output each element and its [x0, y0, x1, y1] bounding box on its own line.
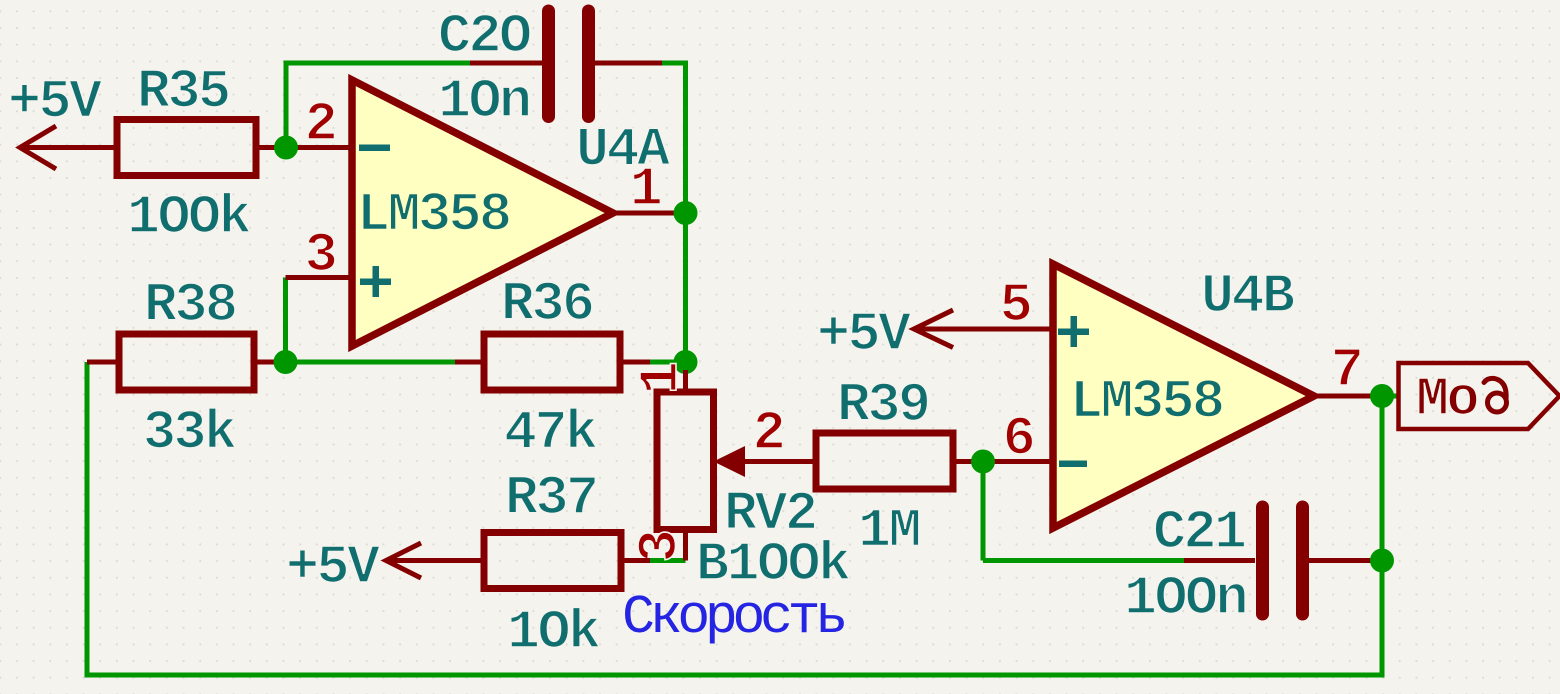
- svg-text:1Ok: 1Ok: [507, 601, 600, 664]
- wire R38 left pin: [87, 360, 119, 365]
- svg-text:1OOk: 1OOk: [127, 186, 251, 249]
- resistor R36: [484, 334, 620, 390]
- power +5V arrow (U4B pin5): [914, 310, 1053, 348]
- op-amp U4A: [352, 80, 613, 346]
- resistor R38: [119, 334, 254, 390]
- capacitor C20 plates: [549, 11, 589, 117]
- net label Мод flag: [1399, 363, 1560, 429]
- wire top horizontal right (C20 to output column): [662, 61, 686, 66]
- svg-text:47k: 47k: [504, 402, 597, 465]
- svg-text:Скорость: Скорость: [622, 586, 844, 649]
- wire output column vertical (C20 to U4A out to R36 node to RV2): [683, 61, 688, 365]
- wire C21 left horizontal: [983, 558, 1184, 563]
- wire R37 right pin: [621, 558, 650, 563]
- op-amp U4B: [1053, 264, 1314, 528]
- capacitor C20 lead left: [470, 61, 542, 66]
- svg-text:3: 3: [305, 224, 336, 287]
- RV2 pin3 lead: [683, 530, 688, 561]
- wire U4A output pin1: [613, 211, 686, 216]
- capacitor C21 lead left: [1184, 558, 1255, 563]
- capacitor C20 lead right: [595, 61, 662, 66]
- svg-text:+5V: +5V: [817, 303, 911, 366]
- potentiometer RV2 body: [683, 370, 688, 392]
- junction R38 node: [274, 350, 298, 374]
- U4A plus mark: [360, 266, 391, 297]
- wire R38 right pin: [254, 360, 286, 365]
- wire U4B output pin7: [1314, 394, 1382, 399]
- wire right vertical (output to bottom): [1380, 396, 1385, 678]
- wire bottom horizontal feedback: [85, 673, 1383, 678]
- svg-text:U4B: U4B: [1201, 265, 1294, 328]
- wire pin3 drop: [283, 278, 288, 363]
- svg-text:1On: 1On: [438, 70, 530, 133]
- junction U4A output node: [674, 201, 698, 225]
- U4B plus mark: [1058, 316, 1089, 347]
- power +5V arrow (R35 left): [20, 126, 117, 169]
- svg-text:R39: R39: [837, 374, 929, 437]
- wire pin R35 right to U4A pin2: [256, 145, 352, 150]
- svg-text:7: 7: [1331, 339, 1362, 402]
- svg-text:6: 6: [1003, 408, 1034, 471]
- capacitor C21 lead right: [1309, 558, 1382, 563]
- resistor R35: [117, 120, 256, 176]
- resistor R39: [816, 433, 953, 489]
- wire R37 to RV2 pin3: [650, 558, 686, 563]
- svg-text:+5V: +5V: [8, 71, 102, 134]
- svg-text:R36: R36: [501, 273, 593, 336]
- junction RV2 top node: [674, 350, 698, 374]
- wire left vertical feedback: [85, 362, 90, 675]
- svg-text:C21: C21: [1153, 501, 1245, 564]
- wire wiper to R39: [745, 459, 816, 464]
- U4B minus mark: [1059, 461, 1087, 468]
- wire R36 to RV2 top node: [650, 360, 686, 365]
- svg-text:1: 1: [630, 363, 693, 394]
- net label glyph d: [1484, 378, 1507, 412]
- svg-text:LM358: LM358: [357, 184, 510, 247]
- capacitor C21 plates: [1263, 507, 1303, 614]
- wire R36 left pin: [455, 360, 484, 365]
- svg-text:1M: 1M: [858, 500, 920, 563]
- svg-text:R35: R35: [137, 61, 229, 124]
- junction U4B pin6 node: [971, 450, 995, 474]
- resistor R37: [484, 533, 621, 589]
- wire R39 right pin to U4B pin6: [953, 459, 1053, 464]
- svg-text:2: 2: [753, 402, 784, 465]
- svg-text:Мо: Мо: [1416, 368, 1478, 431]
- svg-text:5: 5: [1000, 274, 1031, 337]
- power +5V arrow (R37 left): [386, 543, 484, 578]
- junction U4B output node: [1370, 384, 1394, 408]
- wire R36 right pin: [620, 360, 650, 365]
- wire top horizontal left (pin2 node to C20): [286, 61, 470, 66]
- svg-text:C2O: C2O: [438, 5, 531, 68]
- wire vertical pin2 node riser: [284, 61, 289, 148]
- svg-text:2: 2: [305, 93, 336, 156]
- wire pin3 lead: [286, 275, 353, 280]
- svg-text:R37: R37: [505, 467, 597, 530]
- wire R38 node to R36: [286, 360, 456, 365]
- svg-text:33k: 33k: [143, 402, 236, 465]
- wire stub to Mod label: [1382, 394, 1397, 399]
- wire R39 node drop to C21: [981, 462, 986, 561]
- RV2 wiper arrow: [714, 446, 746, 477]
- svg-text:1OOn: 1OOn: [1124, 567, 1246, 630]
- svg-text:1: 1: [630, 158, 661, 221]
- svg-text:LM358: LM358: [1070, 371, 1223, 434]
- svg-text:3: 3: [629, 531, 692, 562]
- junction C21 node: [1370, 549, 1394, 573]
- U4A minus mark: [359, 145, 390, 152]
- svg-text:+5V: +5V: [286, 536, 380, 599]
- svg-text:R38: R38: [144, 274, 236, 337]
- junction pin2 node: [274, 136, 298, 160]
